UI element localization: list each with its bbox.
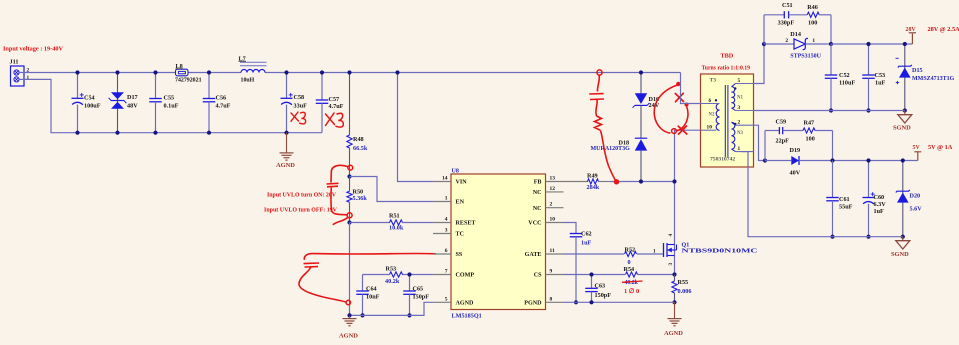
svg-text:C54: C54 xyxy=(84,94,95,101)
svg-text:Input voltage : 19-40V: Input voltage : 19-40V xyxy=(3,46,63,53)
transistor Q1 xyxy=(653,234,758,266)
svg-text:Input UVLO turn ON: 20V: Input UVLO turn ON: 20V xyxy=(267,192,337,198)
junction C56 top xyxy=(207,70,211,74)
junction R55 bottom xyxy=(672,300,676,304)
svg-text:TBD: TBD xyxy=(721,53,734,60)
junction D15 bottom xyxy=(903,108,907,112)
svg-text:R54: R54 xyxy=(624,266,635,273)
junction C55 top xyxy=(153,70,157,74)
junction C56 bottom xyxy=(207,131,211,135)
junction C65 top xyxy=(407,272,411,276)
svg-text:C63: C63 xyxy=(595,283,606,290)
annotation UVLO bracket xyxy=(327,165,353,225)
junction D17 bottom xyxy=(115,131,119,135)
junction VIN tap on bus xyxy=(395,70,399,74)
port 28V xyxy=(906,27,917,44)
svg-text:N1: N1 xyxy=(737,96,744,101)
ground AGND input xyxy=(276,133,295,169)
svg-text:C61: C61 xyxy=(839,196,850,203)
wire 28V rail xyxy=(831,43,912,45)
capacitor C56 xyxy=(203,73,231,133)
resistor R54 xyxy=(564,266,675,295)
TVS diode D17 xyxy=(109,73,139,133)
svg-text:SS: SS xyxy=(456,252,463,258)
resistor R48 xyxy=(347,73,368,177)
svg-text:R49: R49 xyxy=(587,173,598,180)
resistor R50 xyxy=(347,177,367,223)
svg-text:R53: R53 xyxy=(386,266,397,273)
svg-text:SGND: SGND xyxy=(893,125,911,132)
svg-text:COMP: COMP xyxy=(456,273,475,279)
label input voltage note xyxy=(3,46,63,53)
junction C58 top xyxy=(284,70,288,74)
svg-text:5V: 5V xyxy=(913,145,921,151)
svg-text:N2: N2 xyxy=(709,113,716,118)
svg-text:2: 2 xyxy=(785,38,788,44)
svg-text:0: 0 xyxy=(628,259,631,266)
svg-text:10.0k: 10.0k xyxy=(389,224,404,231)
svg-text:6: 6 xyxy=(445,248,448,254)
wire VIN wire xyxy=(398,73,434,182)
junction C60 top xyxy=(866,158,870,162)
svg-text:AGND: AGND xyxy=(456,301,475,307)
svg-text:2: 2 xyxy=(550,202,553,208)
svg-text:12: 12 xyxy=(550,186,556,192)
svg-text:330pF: 330pF xyxy=(778,20,795,27)
junction C53 top xyxy=(866,42,870,46)
svg-text:28V @ 2.5A: 28V @ 2.5A xyxy=(928,26,959,33)
capacitor C57 xyxy=(316,73,344,133)
resistor R51 xyxy=(350,213,434,232)
capacitor C58 xyxy=(281,73,308,133)
capacitor C51 xyxy=(764,2,807,44)
svg-text:RESET: RESET xyxy=(456,221,476,227)
op-amp IC U8 LM5185Q1 xyxy=(433,168,564,319)
wire input bus top right xyxy=(265,72,681,74)
resistor R52 xyxy=(564,246,664,265)
svg-text:742792021: 742792021 xyxy=(175,77,202,83)
svg-text:NTBS9D0N10MC: NTBS9D0N10MC xyxy=(682,248,758,254)
svg-text:D20: D20 xyxy=(910,192,921,199)
capacitor C63 xyxy=(585,275,611,303)
junction C63 bottom xyxy=(589,300,593,304)
svg-text:4: 4 xyxy=(668,234,674,237)
svg-text:1uF: 1uF xyxy=(581,239,592,246)
wire pin5 to D14 xyxy=(754,44,765,84)
diode D18 xyxy=(591,138,648,181)
junction RESET / R50 bottom node xyxy=(347,220,351,224)
svg-text:VIN: VIN xyxy=(456,180,468,186)
svg-text:NC: NC xyxy=(533,190,542,196)
port 5V xyxy=(913,145,922,161)
svg-text:AGND: AGND xyxy=(339,333,358,340)
svg-text:CS: CS xyxy=(534,273,542,279)
wire pin1 lead xyxy=(742,151,748,153)
svg-text:C60: C60 xyxy=(874,194,885,201)
svg-text:GATE: GATE xyxy=(525,252,542,258)
svg-text:STPS3150U: STPS3150U xyxy=(790,54,821,60)
ground SGND 5V xyxy=(891,237,910,258)
junction D15 top xyxy=(903,42,907,46)
svg-text:NC: NC xyxy=(533,206,542,212)
svg-text:40.2k: 40.2k xyxy=(625,280,639,286)
capacitor C61 xyxy=(826,161,852,237)
svg-text:D15: D15 xyxy=(912,67,923,74)
inductor L7 xyxy=(239,55,267,83)
annotation primary snubber xyxy=(589,70,619,185)
svg-text:R47: R47 xyxy=(804,119,815,126)
svg-text:1: 1 xyxy=(812,38,815,44)
capacitor C55 xyxy=(149,73,178,133)
svg-text:3: 3 xyxy=(738,105,741,111)
junction D20 top xyxy=(901,158,905,162)
junction D19 anode node xyxy=(763,158,767,162)
svg-text:7: 7 xyxy=(445,269,448,275)
svg-text:100: 100 xyxy=(806,136,815,143)
wire COMP wire xyxy=(410,274,434,276)
junction C62 bottom on PGND rail xyxy=(574,300,578,304)
label UVLO on xyxy=(267,192,337,198)
svg-text:22pF: 22pF xyxy=(776,137,790,144)
svg-text:MURA120T3G: MURA120T3G xyxy=(591,146,631,152)
junction Q1 source / CS node xyxy=(672,272,676,276)
svg-text:AGND: AGND xyxy=(664,330,683,337)
capacitor C65 xyxy=(403,275,429,316)
svg-text:2: 2 xyxy=(738,120,741,126)
junction switch node at D18 xyxy=(639,179,643,183)
svg-text:N3: N3 xyxy=(737,131,744,136)
wire 5V return from pin1 xyxy=(748,152,903,237)
svg-text:1uF: 1uF xyxy=(874,208,885,215)
junction C54 bottom xyxy=(75,131,79,135)
diode D19 xyxy=(765,147,918,176)
junction D17 top xyxy=(115,70,119,74)
svg-text:Input UVLO turn OFF: 19V: Input UVLO turn OFF: 19V xyxy=(264,207,338,213)
svg-text:150pF: 150pF xyxy=(413,294,430,301)
junction D19 cathode snubber node xyxy=(830,158,834,162)
svg-text:14: 14 xyxy=(442,176,448,182)
wire input return from J11 pin1 xyxy=(19,79,322,132)
svg-text:5: 5 xyxy=(445,296,448,302)
svg-text:66.5k: 66.5k xyxy=(353,145,368,152)
label 28V rating xyxy=(928,26,959,33)
svg-text:TC: TC xyxy=(456,232,464,238)
wire PGND rail xyxy=(564,301,675,303)
resistor R53 xyxy=(363,266,410,285)
wire switch node to primary and Q1 xyxy=(675,130,701,274)
junction D16 top on bus xyxy=(639,70,643,74)
svg-text:C65: C65 xyxy=(413,285,424,292)
svg-text:C58: C58 xyxy=(294,94,305,101)
junction C55 bottom xyxy=(153,131,157,135)
svg-text:C51: C51 xyxy=(782,2,793,9)
svg-text:5.36k: 5.36k xyxy=(353,195,368,202)
svg-text:10uH: 10uH xyxy=(241,77,255,83)
zener diode D15 xyxy=(896,44,955,111)
svg-text:28V: 28V xyxy=(906,27,917,33)
svg-text:284k: 284k xyxy=(587,184,600,191)
svg-text:6: 6 xyxy=(709,98,712,104)
svg-text:C55: C55 xyxy=(164,94,175,101)
junction C58 bottom and AGND tap xyxy=(284,131,288,135)
wire AGND pin wire xyxy=(350,302,434,315)
svg-text:750310742: 750310742 xyxy=(710,156,735,162)
svg-text:4.7uF: 4.7uF xyxy=(216,103,231,110)
annotation SS wire redline xyxy=(299,253,436,304)
svg-text:0.006: 0.006 xyxy=(678,288,692,295)
svg-text:C59: C59 xyxy=(776,118,787,125)
ferrite bead L8 xyxy=(175,63,202,84)
resistor R49 xyxy=(564,173,675,191)
svg-text:1: 1 xyxy=(445,196,448,202)
resistor R47 xyxy=(803,119,833,160)
svg-text:1: 1 xyxy=(27,75,30,81)
svg-text:1: 1 xyxy=(738,146,741,152)
svg-text:C64: C64 xyxy=(366,285,377,292)
capacitor C54 xyxy=(72,73,101,133)
svg-text:4: 4 xyxy=(445,217,448,223)
junction AGND rail node xyxy=(347,313,351,317)
zener diode D20 xyxy=(896,161,922,237)
svg-text:4.7uF: 4.7uF xyxy=(329,103,344,110)
svg-text:9: 9 xyxy=(550,269,553,275)
wire AGND rail left xyxy=(349,223,351,316)
capacitor C59 xyxy=(765,118,803,160)
svg-text:SGND: SGND xyxy=(891,251,909,258)
svg-text:R52: R52 xyxy=(625,246,636,253)
junction R48 top on bus xyxy=(347,70,351,74)
wire EN to divider xyxy=(350,177,434,202)
svg-text:C52: C52 xyxy=(839,72,850,79)
svg-text:D19: D19 xyxy=(790,147,801,154)
junction C65 bottom xyxy=(407,313,411,317)
wire input bus top left xyxy=(19,72,241,74)
annotation X3 under C58 xyxy=(291,112,306,124)
svg-text:R48: R48 xyxy=(353,136,364,143)
connector J11 xyxy=(10,59,30,87)
svg-text:Turns ratio 1:1:0.19: Turns ratio 1:1:0.19 xyxy=(702,65,751,71)
svg-text:10nF: 10nF xyxy=(366,294,380,301)
svg-text:EN: EN xyxy=(456,200,465,206)
svg-text:3: 3 xyxy=(445,228,448,234)
junction C63 top xyxy=(589,272,593,276)
capacitor C52 xyxy=(825,44,856,111)
svg-text:55uF: 55uF xyxy=(839,204,853,211)
svg-text:8: 8 xyxy=(550,296,553,302)
capacitor C64 xyxy=(356,275,379,316)
junction EN divider node xyxy=(347,174,351,178)
svg-text:5.6V: 5.6V xyxy=(910,205,923,212)
label turns ratio xyxy=(702,65,751,71)
resistor R55 xyxy=(672,275,692,303)
svg-text:FB: FB xyxy=(534,180,542,186)
svg-text:C62: C62 xyxy=(581,231,592,238)
svg-text:U8: U8 xyxy=(452,168,459,174)
label TBD xyxy=(721,53,734,60)
annotation winding swap xyxy=(654,82,688,134)
svg-text:R55: R55 xyxy=(678,279,689,286)
annotation X3 under C57 xyxy=(326,113,344,127)
svg-text:D17: D17 xyxy=(127,94,138,101)
junction C60 bottom xyxy=(866,235,870,239)
svg-text:150pF: 150pF xyxy=(595,292,612,299)
junction D14 anode node xyxy=(762,42,766,46)
svg-text:R46: R46 xyxy=(807,4,818,11)
wire pin2 to D19 xyxy=(754,125,766,160)
transformer T3 xyxy=(701,74,754,167)
junction C54 top xyxy=(75,70,79,74)
svg-text:100uF: 100uF xyxy=(84,103,101,110)
wire primary pin6 feed xyxy=(681,73,701,104)
svg-text:5: 5 xyxy=(738,78,741,84)
wire VCC wire xyxy=(564,223,577,234)
svg-text:T3: T3 xyxy=(710,77,717,83)
capacitor C62 xyxy=(570,231,592,303)
svg-text:48V: 48V xyxy=(127,102,138,109)
svg-text:13: 13 xyxy=(550,176,556,182)
ground SGND 28V xyxy=(893,111,912,132)
svg-text:3: 3 xyxy=(668,263,674,266)
junction C57 top xyxy=(320,70,324,74)
svg-text:10: 10 xyxy=(550,217,556,223)
label UVLO off xyxy=(264,207,338,213)
svg-text:100: 100 xyxy=(808,20,817,27)
svg-text:MMSZ4713T1G: MMSZ4713T1G xyxy=(912,76,955,82)
svg-text:VCC: VCC xyxy=(528,221,541,227)
zener diode D16 xyxy=(633,73,660,139)
svg-text:R51: R51 xyxy=(389,213,400,220)
svg-text:33uF: 33uF xyxy=(294,103,308,110)
svg-text:C53: C53 xyxy=(875,72,886,79)
junction C64 bottom xyxy=(360,313,364,317)
label 5V rating xyxy=(928,144,953,151)
junction C61 bottom xyxy=(830,235,834,239)
svg-text:1: 1 xyxy=(653,248,656,254)
svg-text:D14: D14 xyxy=(790,31,801,38)
svg-text:PGND: PGND xyxy=(524,301,542,307)
svg-text:40.2k: 40.2k xyxy=(385,278,400,285)
svg-text:J11: J11 xyxy=(10,59,19,66)
wire 28V return from pin3 xyxy=(754,110,905,112)
svg-text:6.3V: 6.3V xyxy=(874,201,887,208)
svg-text:5V @ 1A: 5V @ 1A xyxy=(928,144,953,151)
capacitor C60 xyxy=(863,161,887,237)
junction D20 bottom xyxy=(901,235,905,239)
diode D14 xyxy=(764,31,831,60)
svg-text:110uF: 110uF xyxy=(839,80,855,87)
ground AGND under IC xyxy=(339,315,358,339)
svg-text:1 ∅ 0: 1 ∅ 0 xyxy=(624,288,639,295)
svg-text:C57: C57 xyxy=(329,96,340,103)
svg-text:0.1uF: 0.1uF xyxy=(164,103,179,110)
junction C52 bottom xyxy=(829,108,833,112)
svg-text:10: 10 xyxy=(707,125,713,131)
svg-text:LM5185Q1: LM5185Q1 xyxy=(452,312,482,319)
svg-text:AGND: AGND xyxy=(276,162,295,169)
svg-text:40V: 40V xyxy=(790,169,801,176)
junction switch node junction xyxy=(672,179,676,183)
junction D14 cathode node xyxy=(829,42,833,46)
ground AGND under Q1 xyxy=(664,302,683,337)
junction C53 bottom xyxy=(866,108,870,112)
svg-text:C56: C56 xyxy=(216,94,227,101)
svg-text:1uF: 1uF xyxy=(875,80,886,87)
capacitor C53 xyxy=(862,44,885,111)
svg-text:11: 11 xyxy=(550,248,555,254)
resistor R46 xyxy=(807,4,831,44)
